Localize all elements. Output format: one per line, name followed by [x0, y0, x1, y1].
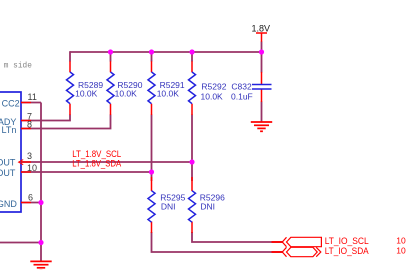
junction pin6/ground net — [38, 200, 43, 205]
junction SDA/R5291/R5295 — [149, 169, 154, 174]
svg-text:10: 10 — [27, 163, 37, 173]
svg-text:11: 11 — [28, 92, 37, 102]
svg-text:LT_IO_SCL: LT_IO_SCL — [325, 236, 369, 246]
junction SCL/R5292/R5296 — [189, 159, 194, 164]
svg-text:LT_1.8V_SDA: LT_1.8V_SDA — [72, 158, 121, 168]
wire: 1.8V rail — [70, 51, 262, 53]
svg-text:8: 8 — [27, 120, 32, 130]
wire: pin 11 to ground net — [21, 103, 41, 262]
wire: C832 bottom to ground — [261, 102, 263, 123]
junction rail/R5292 — [189, 49, 194, 54]
junction rail/R5291 — [149, 49, 154, 54]
wire: net LT_1.8V_SCL pin 3 — [21, 161, 192, 163]
svg-text:OUT: OUT — [0, 168, 16, 178]
svg-text:LTn: LTn — [2, 125, 17, 135]
svg-text:1.8V: 1.8V — [252, 24, 271, 34]
svg-text:CC2: CC2 — [2, 99, 20, 109]
pin 6 stub — [21, 202, 31, 204]
resistor R5291 — [148, 61, 185, 115]
svg-text:0.1uF: 0.1uF — [231, 92, 253, 102]
wire: R5290 bottom to pin 8 — [21, 115, 111, 129]
wire: SCL net to R5296 top — [191, 162, 193, 181]
svg-text:LT_IO_SDA: LT_IO_SDA — [325, 246, 369, 256]
svg-text:R5292: R5292 — [201, 82, 226, 92]
connector pin red segment SCL — [272, 241, 283, 243]
ground under C832 — [251, 122, 272, 131]
resistor R5289 — [67, 61, 104, 115]
wire: rail to R5291 top — [151, 52, 153, 62]
resistor R5295 DNI — [148, 177, 186, 233]
svg-text:DNI: DNI — [200, 202, 215, 212]
off-page connector LT_IO_SDA — [282, 247, 321, 256]
wire: left edge to ground net — [0, 242, 41, 244]
pin 11 stub — [21, 102, 31, 104]
svg-text:10.0K: 10.0K — [201, 92, 224, 102]
capacitor C832 — [231, 72, 272, 102]
pin 8 stub — [21, 128, 31, 130]
svg-text:10.0K: 10.0K — [157, 89, 180, 99]
wire: SDA net to R5295 top — [151, 172, 153, 181]
junction left wire/ground net — [38, 240, 43, 245]
resistor R5292 — [189, 61, 227, 115]
svg-text:10: 10 — [396, 236, 406, 246]
svg-text:10.0K: 10.0K — [115, 89, 138, 99]
wire: rail to R5290 top — [110, 52, 112, 62]
svg-text:C832: C832 — [231, 82, 252, 92]
power symbol 1.8V — [256, 33, 267, 42]
svg-text:m side: m side — [4, 63, 32, 71]
IC U1 body — [0, 92, 21, 212]
svg-text:10.0K: 10.0K — [75, 89, 98, 99]
wire: rail to R5289 top — [69, 51, 71, 61]
wire: pin 6 to ground net — [21, 202, 41, 204]
junction rail/R5290 — [108, 49, 113, 54]
svg-text:DNI: DNI — [161, 202, 176, 212]
ground under IC GND net — [30, 261, 51, 270]
pin 3 stub with arrow — [19, 160, 31, 165]
pin 10 stub — [21, 171, 31, 173]
junction rail/1.8V/C832 — [259, 49, 264, 54]
svg-text:6: 6 — [28, 193, 33, 203]
resistor R5296 DNI — [189, 177, 226, 233]
svg-text:OUT: OUT — [0, 158, 16, 168]
wire: R5291 bottom to SDA net — [151, 115, 153, 173]
pin 7 stub — [21, 120, 31, 122]
wire: net LT_1.8V_SDA pin 10 — [21, 171, 152, 173]
off-page connector LT_IO_SCL — [282, 237, 321, 246]
resistor R5290 — [107, 61, 143, 115]
wire: R5295 bottom to LT_IO_SDA connector — [152, 232, 283, 252]
svg-text:10: 10 — [396, 246, 406, 256]
wire: R5292 bottom to SCL net — [191, 115, 193, 163]
connector pin red segment SDA — [272, 251, 283, 253]
wire: rail to R5292 top — [191, 52, 193, 62]
svg-text:GND: GND — [0, 199, 17, 209]
wire: R5296 bottom to LT_IO_SCL connector — [192, 232, 283, 242]
wire: R5289 bottom to pin 7 — [21, 115, 70, 121]
wire: 1.8V symbol to rail to C832 — [261, 42, 263, 73]
svg-text:3: 3 — [27, 151, 32, 161]
